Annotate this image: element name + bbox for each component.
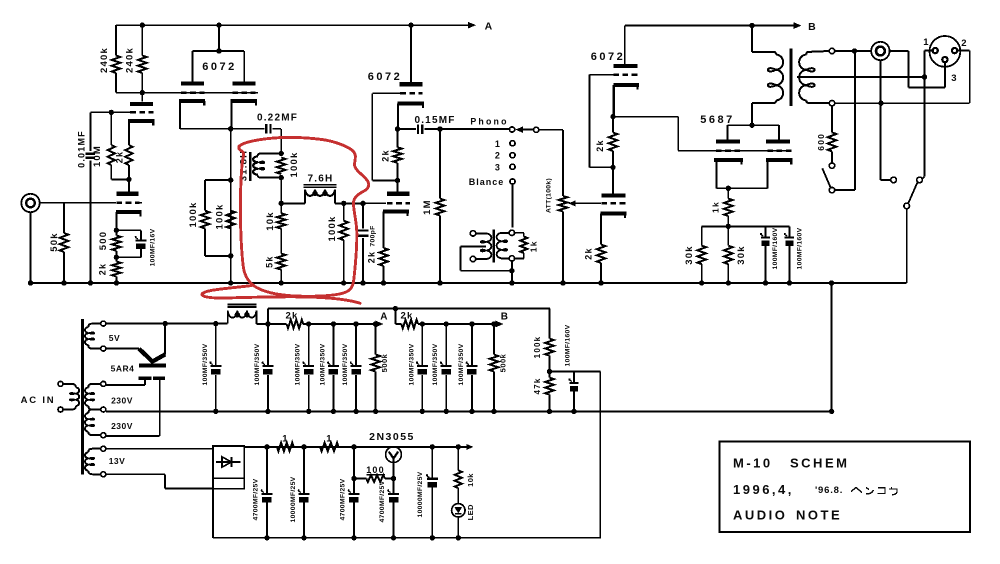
svg-text:2k: 2k: [595, 139, 605, 151]
svg-text:30k: 30k: [736, 245, 747, 264]
svg-text:6072: 6072: [202, 61, 236, 73]
svg-text:2k: 2k: [381, 149, 391, 161]
svg-text:2k: 2k: [98, 263, 108, 275]
svg-text:5k: 5k: [265, 255, 275, 267]
svg-text:100: 100: [366, 465, 385, 475]
svg-text:3: 3: [951, 73, 957, 84]
svg-text:100MF/350V: 100MF/350V: [202, 343, 209, 385]
svg-text:1: 1: [923, 37, 929, 48]
svg-text:0.15MF: 0.15MF: [414, 115, 455, 126]
svg-text:13V: 13V: [109, 456, 126, 466]
svg-text:10000MF/25V: 10000MF/25V: [417, 471, 424, 517]
svg-text:600: 600: [816, 133, 826, 151]
svg-text:100MF/350V: 100MF/350V: [342, 343, 349, 385]
svg-text:100MF/350V: 100MF/350V: [432, 343, 439, 385]
svg-text:10k: 10k: [466, 473, 475, 487]
svg-text:NOTE: NOTE: [796, 508, 842, 523]
svg-text:2: 2: [495, 151, 501, 161]
svg-text:240k: 240k: [125, 47, 136, 73]
svg-text:100k: 100k: [188, 202, 199, 228]
svg-text:10k: 10k: [265, 211, 276, 230]
svg-text:0.22MF: 0.22MF: [257, 113, 298, 124]
svg-text:100k: 100k: [533, 336, 542, 359]
svg-text:100MF/350V: 100MF/350V: [319, 343, 326, 385]
svg-text:500: 500: [98, 231, 109, 250]
svg-text:100MF/16V: 100MF/16V: [149, 228, 156, 266]
svg-text:100k: 100k: [327, 216, 338, 242]
svg-text:47k: 47k: [533, 378, 542, 395]
svg-text:0.01MF: 0.01MF: [77, 130, 87, 168]
svg-text:2: 2: [961, 38, 967, 49]
svg-text:500k: 500k: [380, 353, 389, 372]
svg-text:AC IN: AC IN: [21, 395, 56, 406]
svg-text:30k: 30k: [684, 245, 695, 264]
svg-text:2k: 2k: [401, 310, 414, 321]
svg-text:100MF/350V: 100MF/350V: [254, 343, 261, 385]
svg-text:1k: 1k: [529, 240, 539, 252]
svg-text:1: 1: [282, 433, 288, 444]
svg-text:100MF/160V: 100MF/160V: [797, 227, 804, 269]
svg-text:2k: 2k: [584, 247, 594, 259]
svg-text:SCHEM: SCHEM: [790, 456, 849, 471]
svg-text:3: 3: [495, 162, 501, 172]
svg-text:Blance: Blance: [469, 177, 505, 187]
svg-text:4700MF/25V: 4700MF/25V: [253, 478, 260, 520]
svg-text:5687: 5687: [700, 114, 734, 126]
svg-text:7.6H: 7.6H: [308, 174, 334, 185]
svg-text:4700MF/25V: 4700MF/25V: [340, 478, 347, 520]
svg-text:2N3055: 2N3055: [369, 431, 415, 443]
svg-text:B: B: [501, 311, 509, 322]
svg-text:Phono: Phono: [470, 117, 508, 127]
svg-text:100MF/350V: 100MF/350V: [408, 343, 415, 385]
svg-text:1k: 1k: [711, 201, 721, 213]
svg-text:10000MF/25V: 10000MF/25V: [290, 476, 297, 522]
svg-text:1M: 1M: [422, 199, 433, 215]
svg-text:LED: LED: [466, 504, 475, 520]
svg-text:6072: 6072: [591, 51, 625, 63]
svg-text:100MF/350V: 100MF/350V: [295, 343, 302, 385]
svg-text:100MF/160V: 100MF/160V: [772, 227, 779, 269]
svg-text:100MF/160V: 100MF/160V: [565, 324, 572, 366]
svg-text:6072: 6072: [368, 71, 402, 83]
svg-text:5V: 5V: [109, 333, 120, 343]
svg-text:M-10: M-10: [733, 456, 773, 471]
svg-text:2k: 2k: [115, 151, 125, 163]
svg-text:5AR4: 5AR4: [111, 364, 135, 374]
svg-text:4700MF/25V: 4700MF/25V: [379, 480, 386, 522]
svg-text:50k: 50k: [49, 232, 60, 251]
svg-text:100k: 100k: [289, 152, 300, 178]
svg-text:ATT(100k): ATT(100k): [546, 178, 553, 213]
svg-text:700pF: 700pF: [370, 225, 377, 246]
svg-text:100k: 100k: [215, 204, 226, 230]
svg-text:A: A: [380, 311, 388, 322]
svg-text:1: 1: [495, 139, 501, 149]
svg-text:A: A: [485, 21, 494, 33]
svg-text:1: 1: [326, 433, 332, 444]
svg-text:230V: 230V: [111, 395, 133, 405]
svg-text:230V: 230V: [111, 421, 133, 431]
svg-text:2k: 2k: [286, 310, 299, 321]
svg-text:'96.8.: '96.8.: [815, 485, 843, 496]
svg-text:AUDIO: AUDIO: [733, 508, 787, 523]
svg-text:100MF/350V: 100MF/350V: [458, 343, 465, 385]
svg-text:240k: 240k: [99, 47, 110, 73]
svg-text:B: B: [808, 21, 817, 33]
svg-text:10M: 10M: [92, 145, 103, 167]
svg-text:1996,4,: 1996,4,: [733, 482, 794, 497]
svg-text:2k: 2k: [367, 251, 377, 263]
svg-text:500k: 500k: [499, 353, 508, 372]
